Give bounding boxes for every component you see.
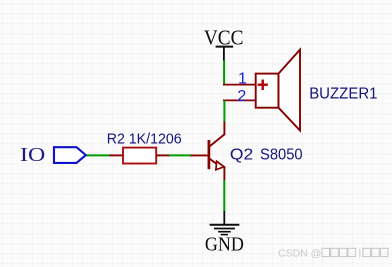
svg-text:BUZZER1: BUZZER1 (309, 85, 377, 102)
buzzer body (256, 74, 279, 108)
wire resistor to base (169, 154, 191, 156)
body (123, 148, 156, 164)
wire VCC to pin 1 (223, 61, 225, 85)
wire port to resistor (86, 154, 110, 156)
base pin (190, 154, 208, 156)
wire emitter to ground (223, 180, 225, 211)
watermark (278, 247, 388, 260)
base bar (208, 140, 211, 169)
svg-text:1: 1 (238, 71, 247, 88)
emitter arrow (216, 161, 224, 170)
resistor R2 (107, 131, 182, 163)
svg-text:|: | (359, 247, 362, 259)
svg-text:2: 2 (237, 88, 246, 105)
ground (205, 211, 244, 256)
svg-text:S8050: S8050 (260, 146, 303, 163)
svg-text:IO: IO (20, 144, 45, 166)
collector pin (223, 122, 225, 136)
plus mark (258, 83, 268, 85)
buzzer horn (279, 50, 301, 131)
svg-text:Q2: Q2 (230, 146, 253, 163)
pin 2 (223, 99, 257, 101)
right pin (156, 154, 169, 156)
transistor Q2 (190, 122, 303, 181)
svg-text:CSDN @: CSDN @ (278, 248, 321, 260)
power symbol VCC (204, 26, 244, 61)
pin 1 (223, 84, 257, 86)
collector diagonal (210, 134, 225, 146)
port IO (20, 144, 86, 166)
emitter diagonal (210, 159, 217, 164)
svg-text:R2 1K/1206: R2 1K/1206 (107, 131, 182, 147)
svg-text:GND: GND (205, 234, 244, 256)
buzzer BUZZER1 (223, 50, 378, 131)
emitter pin (223, 167, 225, 180)
wire pin 2 to collector (223, 100, 225, 122)
left pin (109, 154, 123, 156)
